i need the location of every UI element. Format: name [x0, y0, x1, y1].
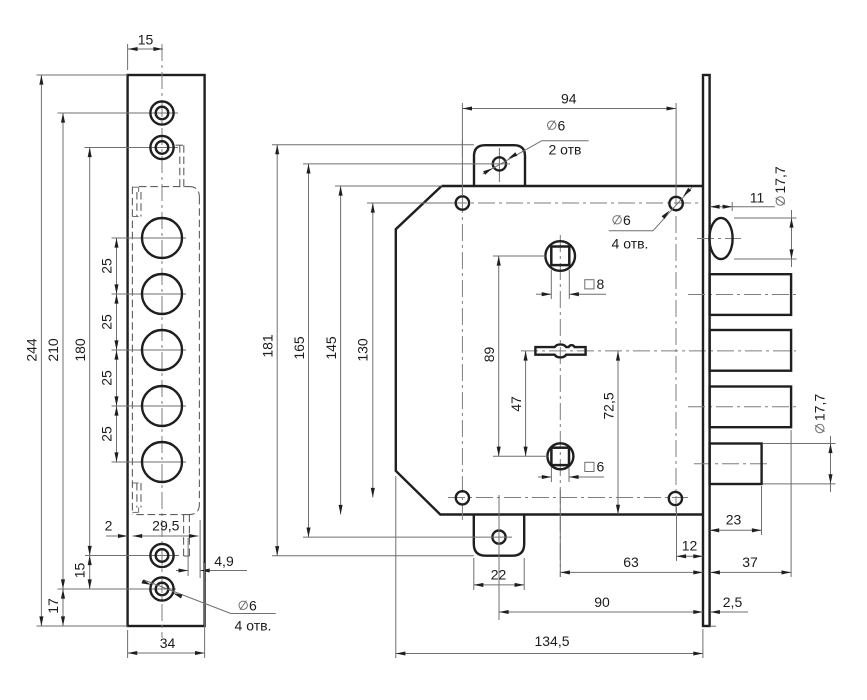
- dimension 23: [710, 486, 762, 535]
- deadbolt 2: [710, 330, 792, 371]
- dimension 17: [45, 589, 65, 626]
- dimension 15 top: [128, 32, 163, 71]
- svg-text:25: 25: [99, 426, 115, 442]
- screw hole bottom-left diam6: [448, 491, 688, 504]
- dimension 63: [560, 490, 703, 577]
- svg-text:15: 15: [138, 32, 154, 48]
- svg-text:130: 130: [354, 338, 370, 362]
- svg-text:244: 244: [24, 338, 40, 362]
- dimension 244: [24, 75, 128, 626]
- bottom mounting tab: [474, 515, 524, 556]
- svg-text:4 отв.: 4 отв.: [612, 236, 649, 252]
- svg-text:6: 6: [558, 118, 566, 134]
- svg-text:17,7: 17,7: [812, 394, 828, 421]
- leader diam6 4 holes right view: [609, 188, 692, 252]
- svg-text:72,5: 72,5: [601, 392, 617, 419]
- dimension 210: [45, 113, 65, 589]
- keyhole guide part: [535, 344, 585, 357]
- svg-text:23: 23: [726, 512, 742, 528]
- hidden lid bend top: [132, 187, 141, 216]
- deadbolt 3: [688, 387, 796, 428]
- dimension 145: [323, 186, 442, 515]
- dimension 165: [291, 164, 512, 537]
- svg-text:6: 6: [597, 459, 605, 475]
- large hole 4: [112, 386, 187, 426]
- deadbolt 1: [688, 274, 796, 315]
- dimension square 6: [538, 459, 605, 483]
- upper spindle follower square 8: [545, 241, 575, 271]
- faceplate outline: [128, 75, 205, 626]
- svg-text:63: 63: [623, 554, 639, 570]
- hidden lid bend bottom: [132, 483, 141, 512]
- dimension diam17,7 right: [763, 394, 836, 492]
- dimension 72,5: [601, 351, 621, 514]
- large hole 5: [112, 442, 187, 482]
- dimension chain 25 x4: [99, 238, 119, 462]
- svg-text:11: 11: [750, 190, 765, 206]
- latch bolt: [697, 218, 741, 259]
- svg-text:4,9: 4,9: [214, 553, 234, 569]
- svg-text:25: 25: [99, 314, 115, 330]
- dimension 2,5: [710, 594, 748, 614]
- svg-text:8: 8: [597, 276, 605, 292]
- top mounting tab: [474, 145, 525, 186]
- spindle centerline vertical: [559, 235, 561, 577]
- svg-text:37: 37: [742, 554, 758, 570]
- svg-text:34: 34: [160, 635, 176, 651]
- leader diam6 2 holes top tab: [483, 118, 589, 175]
- dimension 47: [508, 351, 528, 456]
- large hole 1: [112, 218, 187, 258]
- svg-text:210: 210: [45, 338, 61, 362]
- dimension 181: [260, 145, 475, 556]
- leader diam6 4 holes left view: [142, 580, 276, 634]
- svg-text:89: 89: [481, 347, 497, 363]
- screw hole top-left diam6: [450, 140, 700, 520]
- svg-text:145: 145: [323, 336, 339, 360]
- hidden bottom tab edge-on: [184, 515, 190, 556]
- svg-text:12: 12: [682, 538, 698, 554]
- large hole 2: [112, 274, 187, 314]
- svg-text:6: 6: [249, 598, 257, 614]
- hidden top tab edge-on: [176, 145, 184, 186]
- dimension 134,5: [396, 476, 703, 658]
- dimension 130: [354, 203, 452, 498]
- dimension 94: [462, 90, 676, 196]
- dimension square 8: [536, 270, 606, 299]
- svg-text:94: 94: [561, 90, 577, 106]
- top screw hole 2: [85, 136, 179, 159]
- dimension 34: [128, 563, 205, 658]
- dimension 22: [474, 495, 524, 620]
- svg-text:17,7: 17,7: [772, 166, 788, 193]
- dimension diam17,7 top: [734, 166, 797, 267]
- faceplate vertical centerline: [161, 44, 163, 638]
- svg-text:47: 47: [508, 396, 524, 412]
- bottom screw hole 1: [85, 544, 179, 567]
- dimension 37: [710, 430, 791, 577]
- svg-text:25: 25: [99, 370, 115, 386]
- dimension 11: [710, 190, 775, 212]
- bottom screw hole 2: [58, 577, 177, 600]
- dimension 12: [677, 507, 703, 561]
- svg-text:2,5: 2,5: [723, 594, 743, 610]
- dimension 90: [499, 558, 703, 617]
- svg-text:181: 181: [260, 334, 276, 358]
- screw hole top-right diam6: [669, 188, 682, 512]
- svg-text:134,5: 134,5: [534, 633, 569, 649]
- lower spindle follower square 6: [547, 443, 573, 469]
- dimension 4,9: [176, 520, 247, 578]
- svg-text:90: 90: [594, 594, 610, 610]
- svg-text:4 отв.: 4 отв.: [235, 618, 272, 634]
- svg-text:2 отв: 2 отв: [548, 142, 581, 158]
- svg-text:29,5: 29,5: [152, 518, 179, 534]
- svg-text:22: 22: [491, 567, 507, 583]
- top screw hole 1: [58, 101, 179, 124]
- large hole 3: [112, 330, 187, 370]
- svg-text:17: 17: [45, 598, 61, 614]
- central bolt: [694, 444, 770, 485]
- dimension 29,5: [133, 518, 199, 539]
- dimension 89: [481, 256, 548, 456]
- svg-text:25: 25: [99, 258, 115, 274]
- svg-text:15: 15: [72, 563, 88, 579]
- dimension 15 bottom: [72, 556, 92, 590]
- svg-text:6: 6: [623, 212, 631, 228]
- screw hole bottom-right diam6: [669, 492, 682, 505]
- svg-text:180: 180: [72, 338, 88, 362]
- svg-text:165: 165: [291, 336, 307, 360]
- keyhole centerline horizontal: [521, 350, 796, 352]
- dimension 2: [105, 518, 128, 539]
- lock body outline: [396, 186, 703, 515]
- dimension 180: [72, 148, 92, 556]
- svg-text:2: 2: [105, 518, 113, 534]
- hidden lock case outline (dashed): [132, 187, 199, 515]
- faceplate side strip: [703, 75, 716, 626]
